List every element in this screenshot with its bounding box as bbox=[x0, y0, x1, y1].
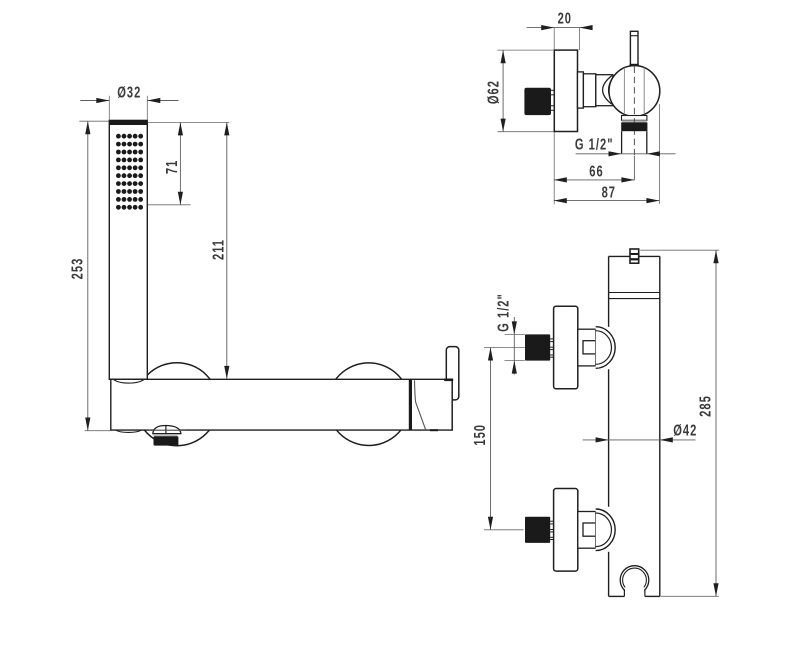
shared extension line top (fig1) bbox=[148, 121, 229, 123]
extension line right of circle (fig2) bbox=[658, 104, 660, 204]
dimension O42 (fig3) bbox=[583, 439, 696, 441]
dimension 253 (fig1) bbox=[79, 120, 109, 122]
ball joint bell outer arc (fig2) bbox=[603, 76, 612, 105]
outlet black spout (fig1) bbox=[154, 436, 179, 445]
svg-text:71: 71 bbox=[163, 160, 180, 174]
svg-text:285: 285 bbox=[697, 395, 714, 417]
cylinder silhouette chords (fig2) bbox=[623, 68, 625, 115]
spray face dots (5x10) bbox=[116, 134, 143, 210]
dimension 87 (fig2) bbox=[554, 200, 660, 202]
hand shower holder ring (fig3) bbox=[620, 566, 649, 595]
svg-text:211: 211 bbox=[210, 239, 227, 260]
hand shower top black band bbox=[109, 120, 148, 125]
bottom seam bar (fig1) bbox=[430, 429, 438, 431]
handle stem (fig2) bbox=[630, 31, 638, 66]
dimension 66 (fig2) bbox=[554, 179, 635, 181]
hand shower tube (fig1) bbox=[109, 120, 147, 379]
svg-text:G 1/2": G 1/2" bbox=[495, 293, 512, 332]
connector ring A (fig2) bbox=[578, 72, 584, 108]
body joint lines (fig3) bbox=[609, 292, 660, 294]
center dashed line (fig2) bbox=[633, 67, 635, 157]
wall-mount circle left (fig1) bbox=[135, 363, 218, 446]
valve body circle (fig2) bbox=[609, 66, 660, 117]
svg-text:66: 66 bbox=[589, 163, 603, 180]
bell inner arc (fig3) bbox=[596, 331, 612, 365]
svg-text:Ø62: Ø62 bbox=[485, 80, 502, 104]
ball joint bell inner arc (fig2) bbox=[609, 77, 613, 102]
mixer body (fig1) bbox=[111, 379, 453, 430]
outlet dome (fig1) bbox=[153, 426, 181, 434]
connector block (fig3) bbox=[578, 512, 596, 549]
cap joint curve (fig1) bbox=[415, 380, 426, 430]
dimension O32 (fig1) bbox=[108, 96, 110, 121]
connector inner square (fig3) bbox=[583, 523, 596, 536]
wall flange (fig3) bbox=[554, 306, 578, 389]
connector block (fig3) bbox=[578, 329, 596, 366]
svg-text:150: 150 bbox=[471, 424, 488, 446]
svg-text:253: 253 bbox=[69, 258, 86, 280]
dimension G 1/2 (fig2) bbox=[576, 153, 676, 155]
outlet pipe edges (fig2) bbox=[621, 131, 623, 154]
svg-text:20: 20 bbox=[558, 10, 572, 27]
bell outer arc (fig3) bbox=[596, 327, 615, 369]
connector cylinder B (fig2) bbox=[583, 74, 595, 107]
dimension O62 (fig2) bbox=[497, 49, 553, 51]
wall flange (fig3) bbox=[554, 489, 578, 572]
collar gray band (fig2) bbox=[622, 120, 647, 122]
knurled eccentric nut (fig3) bbox=[525, 334, 550, 360]
long extension line wall plane (fig2) bbox=[553, 28, 555, 205]
dimension 285 (fig3) bbox=[640, 249, 719, 251]
lever handle (fig1) bbox=[446, 347, 459, 400]
bell inner arc (fig3) bbox=[596, 513, 612, 547]
dimension G 1/2 (fig3) bbox=[505, 333, 525, 335]
knurled outlet ring (fig2) bbox=[621, 122, 647, 131]
connector section C (fig2) bbox=[596, 75, 613, 106]
svg-text:87: 87 bbox=[602, 184, 616, 201]
nut bracket marks (fig3) bbox=[550, 338, 553, 340]
shower holder cradle lip top (fig1) bbox=[114, 380, 144, 384]
dimension 211 (fig1) bbox=[226, 122, 228, 379]
svg-text:G 1/2": G 1/2" bbox=[575, 136, 614, 153]
connector inner square (fig3) bbox=[583, 341, 596, 354]
nut bracket marks (fig3) bbox=[550, 520, 553, 522]
outlet aerator band (fig1) bbox=[153, 434, 177, 437]
dimension 71 (fig1) bbox=[148, 204, 191, 206]
shower holder cradle lip bottom (fig1) bbox=[116, 430, 141, 432]
knurled knob (fig2) bbox=[524, 88, 551, 115]
dimension 150 (fig3) bbox=[484, 529, 524, 531]
outlet collar (fig2) bbox=[622, 116, 647, 121]
knob bracket marks (fig2) bbox=[550, 89, 555, 91]
cartridge joint thick bar (fig1) bbox=[409, 380, 412, 431]
diverter knob on top (fig3) bbox=[630, 249, 639, 263]
wall plate side view (fig2) bbox=[554, 50, 577, 131]
dimension 20 (fig2) bbox=[527, 27, 593, 29]
lever pivot bar (fig1) bbox=[444, 379, 453, 382]
svg-text:Ø32: Ø32 bbox=[117, 84, 141, 101]
bell outer arc (fig3) bbox=[596, 509, 615, 551]
stem base bar (fig2) bbox=[630, 64, 639, 66]
mixer column body (fig3) bbox=[609, 256, 660, 596]
wall-mount circle right (fig1) bbox=[327, 363, 410, 446]
knurled eccentric nut (fig3) bbox=[525, 517, 550, 543]
svg-text:Ø42: Ø42 bbox=[673, 422, 697, 439]
extension line plate front (fig2) bbox=[579, 28, 581, 50]
